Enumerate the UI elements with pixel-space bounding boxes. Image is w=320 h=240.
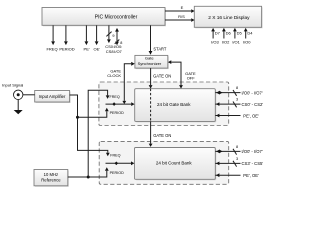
svg-text:10 MHz: 10 MHz	[44, 172, 58, 177]
input amplifier U6	[35, 91, 71, 104]
svg-text:FREQ: FREQ	[110, 153, 120, 157]
count bank FREQ label	[110, 153, 120, 157]
svg-text:START: START	[153, 46, 167, 51]
wire GATE CLOCK into gate synchronizer	[107, 62, 135, 104]
svg-text:OE': OE'	[94, 47, 101, 52]
svg-text:3: 3	[236, 157, 238, 161]
PIC microcontroller U1	[42, 8, 166, 27]
svg-text:9: 9	[112, 34, 114, 38]
bus CS0:CS8 output of PIC, width 9	[105, 25, 114, 53]
svg-text:D4: D4	[247, 30, 253, 35]
svg-text:CS0' - CS2': CS0' - CS2'	[242, 102, 264, 107]
wire PERIOD output of PIC	[59, 25, 74, 51]
svg-text:Input Amplifier: Input Amplifier	[39, 94, 66, 99]
svg-text:PERIOD: PERIOD	[110, 171, 124, 175]
svg-text:CS8: CS8	[106, 49, 115, 54]
wire GATE ON pass-through (dashed inside gate bank) to count bank	[149, 89, 172, 147]
svg-text:CS3' - CS5': CS3' - CS5'	[242, 161, 264, 166]
display data stub D5 / I/O1	[232, 28, 242, 45]
wire input signal to amplifier	[23, 94, 35, 96]
svg-text:D6: D6	[226, 30, 232, 35]
24 bit gate bank U4	[135, 89, 217, 123]
wire PE' output of PIC	[84, 25, 90, 51]
display data stub D7 / I/O3	[211, 28, 221, 45]
2 X 16 line display U2	[194, 6, 262, 28]
bus I/O0'-I/O7' at gate bank, bidirectional, width 8	[215, 86, 263, 96]
svg-text:Reference: Reference	[41, 178, 61, 183]
wire R/S from PIC to display	[165, 14, 195, 22]
wire PE',OE' into gate bank	[215, 113, 259, 118]
bus I/O0'-I/O7' at count bank, bidirectional, width 8	[215, 145, 263, 155]
wire FREQ output of PIC	[46, 25, 57, 51]
input signal connector J1	[2, 83, 23, 100]
gate synchronizer U3	[135, 55, 169, 69]
wire feed into count bank	[106, 161, 135, 165]
display data stub D4 / I/O0	[243, 28, 253, 45]
junction dot on reference wire	[87, 176, 90, 179]
svg-text:I/O7: I/O7	[114, 49, 122, 54]
wire branch reference to gate bank FREQ input	[88, 90, 109, 177]
wire branch to gate bank PERIOD input	[78, 108, 109, 117]
svg-text:I/O0' - I/O7': I/O0' - I/O7'	[242, 149, 263, 154]
svg-text:I/O2: I/O2	[222, 40, 230, 45]
svg-text:FREQ: FREQ	[110, 95, 120, 99]
24 bit count bank U5	[135, 148, 217, 181]
svg-text:I/O1: I/O1	[232, 40, 240, 45]
wire E from PIC to display	[165, 5, 195, 13]
svg-text:Input Signal: Input Signal	[2, 83, 23, 88]
svg-text:PE', OE': PE', OE'	[243, 113, 259, 118]
bus CS3'-CS5' into count bank, width 3	[215, 157, 263, 167]
10 MHz reference U7	[34, 170, 69, 187]
dashed module container B (count bank section)	[99, 141, 229, 184]
dashed module container A (gate bank section)	[99, 82, 229, 126]
svg-text:2 X 16 Line Display: 2 X 16 Line Display	[208, 15, 250, 21]
svg-text:PIC Microcontroller: PIC Microcontroller	[95, 15, 138, 21]
wire START from PIC to gate synchronizer	[149, 25, 167, 54]
count bank PERIOD label	[110, 171, 124, 175]
wire 10 MHz reference output to count bank PERIOD	[68, 167, 109, 177]
svg-text:8: 8	[236, 86, 238, 90]
wire PE',OE' into count bank	[215, 173, 259, 178]
svg-text:D5: D5	[237, 30, 243, 35]
display data stub D6 / I/O2	[222, 28, 232, 45]
svg-text:24 bit Gate Bank: 24 bit Gate Bank	[157, 102, 191, 107]
svg-text:CLOCK: CLOCK	[107, 73, 121, 78]
svg-text:I/O3: I/O3	[211, 40, 219, 45]
gate bank PERIOD label	[110, 111, 124, 115]
junction dot on amp wire	[76, 116, 79, 119]
bus I/O0:I/O7 of PIC, bidirectional, width 8	[114, 28, 123, 54]
svg-text:GATE ON: GATE ON	[153, 133, 171, 138]
svg-text:I/O0: I/O0	[243, 40, 251, 45]
wire feed into gate bank	[106, 102, 135, 106]
svg-text:PERIOD: PERIOD	[110, 111, 124, 115]
wire amp output to count bank FREQ and gate bank PERIOD	[70, 95, 110, 156]
svg-text:OFF: OFF	[187, 76, 196, 81]
svg-text:FREQ: FREQ	[46, 47, 57, 52]
svg-text:Synchronizer: Synchronizer	[138, 61, 162, 66]
wire GATE ON from gate synchronizer to gate bank	[149, 68, 172, 89]
svg-text:PERIOD: PERIOD	[59, 47, 74, 52]
wire OE' output of PIC	[94, 25, 101, 51]
svg-text:8: 8	[236, 145, 238, 149]
bus CS0'-CS2' into gate bank, width 3	[215, 98, 263, 108]
svg-text:24 bit Count Bank: 24 bit Count Bank	[156, 161, 193, 166]
svg-text:3: 3	[236, 98, 238, 102]
gate bank FREQ label	[110, 95, 120, 99]
svg-text:D7: D7	[215, 30, 221, 35]
ground	[14, 100, 23, 115]
svg-text:PE': PE'	[84, 47, 90, 52]
svg-text:R/S: R/S	[178, 14, 185, 19]
svg-text:GATE ON: GATE ON	[153, 73, 171, 78]
wire GATE OFF from gate synchronizer to gate bank	[168, 60, 196, 88]
svg-text:I/O0' - I/O7': I/O0' - I/O7'	[242, 90, 263, 95]
svg-text:PE', OE': PE', OE'	[243, 173, 259, 178]
svg-text:E: E	[181, 5, 184, 10]
